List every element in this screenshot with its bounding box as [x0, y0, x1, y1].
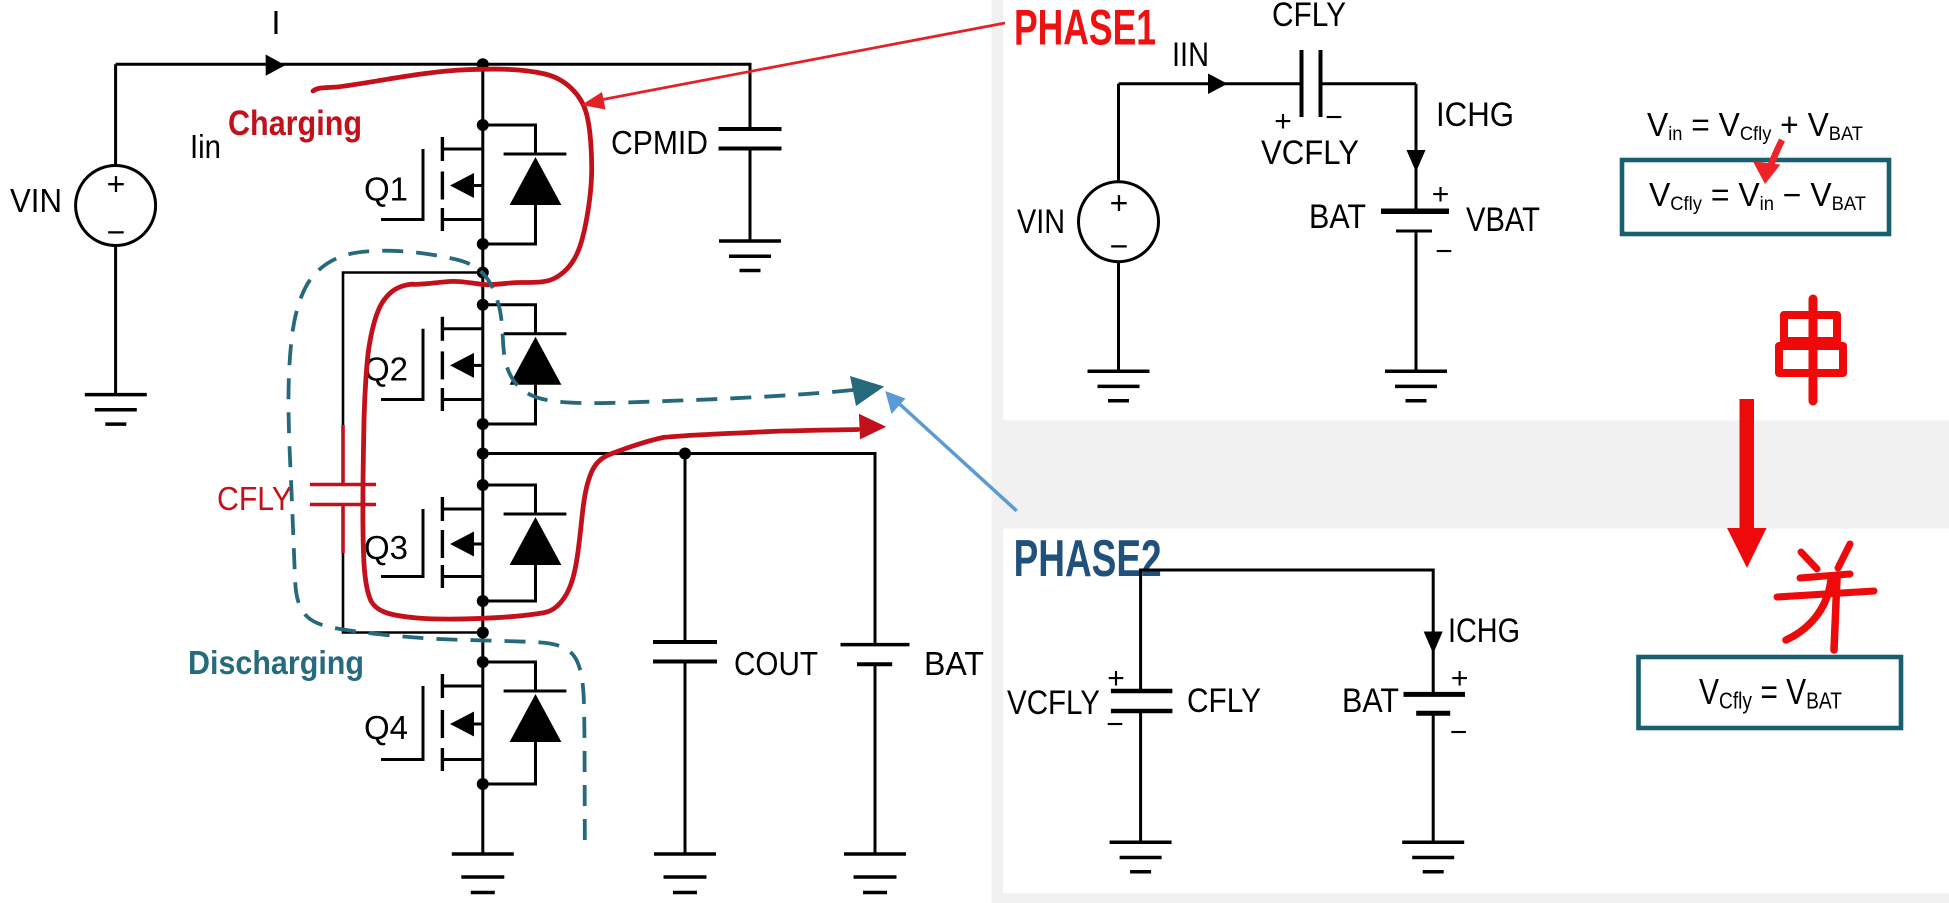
svg-text:Q4: Q4 [364, 709, 408, 746]
svg-text:Q2: Q2 [364, 350, 408, 387]
wire: top rail VIN to CPMID [116, 64, 750, 129]
wire: phase2 top [1141, 570, 1434, 694]
node: CFLY bottom branch [477, 627, 489, 639]
node: CFLY top branch [477, 267, 489, 279]
svg-text:VCFLY: VCFLY [1007, 684, 1100, 722]
svg-text:+: + [1110, 185, 1129, 221]
svg-text:Iin: Iin [190, 128, 221, 165]
wire: phase1 right with ICHG arrow [1415, 84, 1418, 209]
red charging arrowhead [859, 414, 886, 440]
wire: output branch to COUT and BAT [483, 454, 875, 645]
node: Q3 source [477, 595, 489, 607]
gray page background of right half [992, 0, 1949, 903]
node: Q2 source [477, 418, 489, 430]
svg-text:+: + [107, 166, 126, 202]
current arrow IIN [1208, 74, 1228, 95]
svg-text:−: − [1435, 235, 1453, 268]
teal discharging arrowhead [850, 376, 884, 406]
body diode of Q4 [483, 662, 567, 784]
ground under Q4 [452, 854, 514, 893]
svg-text:COUT: COUT [734, 645, 818, 682]
svg-text:−: − [1106, 708, 1124, 741]
capacitor CFLY (phase1) [1302, 50, 1321, 117]
svg-text:Q3: Q3 [364, 529, 408, 566]
body diode of Q2 [483, 305, 567, 424]
voltage source VIN (phase1) [1079, 84, 1159, 372]
red annotation arrow from PHASE1 [600, 23, 1005, 100]
current arrow I on top wire [266, 55, 286, 76]
big red arrow down [1740, 399, 1755, 529]
red charging path curve [313, 69, 858, 619]
node: Q4 source [477, 778, 489, 790]
ground under BAT [844, 854, 906, 893]
svg-text:−: − [1450, 716, 1468, 749]
transistor Q1 [381, 137, 483, 231]
white panel PHASE1 [1003, 0, 1949, 420]
node: Q1 drain [477, 119, 489, 131]
svg-text:PHASE1: PHASE1 [1014, 0, 1156, 56]
wire: main vertical rail [481, 64, 484, 854]
node: VOUT branch [477, 448, 489, 460]
ground under BAT (phase2) [1402, 842, 1464, 872]
svg-text:CFLY: CFLY [1272, 0, 1346, 34]
capacitor CFLY (phase2) [1111, 691, 1173, 711]
current arrow ICHG (phase2) [1424, 632, 1443, 654]
svg-text:CFLY: CFLY [1187, 682, 1261, 720]
wire: CFLY top branch [343, 273, 483, 426]
svg-text:−: − [107, 214, 126, 250]
svg-text:+: + [1432, 178, 1450, 211]
svg-text:VBAT: VBAT [1466, 201, 1540, 239]
ground under COUT [654, 854, 716, 893]
blue annotation arrow [893, 398, 1017, 511]
svg-text:−: − [1110, 228, 1129, 264]
wire: phase1 top [1119, 82, 1417, 85]
body diode of Q3 [483, 485, 567, 601]
battery BAT (phase2) [1404, 692, 1466, 697]
node: Q4 drain [477, 656, 489, 668]
node: Q1 source [477, 238, 489, 250]
node: Q3 drain [477, 479, 489, 491]
teal box phase2 [1639, 657, 1902, 728]
transistor Q4 [381, 674, 483, 771]
ground under VIN (phase1) [1088, 371, 1150, 401]
svg-text:−: − [1325, 101, 1343, 134]
node: Q2 drain [477, 299, 489, 311]
chinese character chuan (series) [1779, 299, 1843, 401]
voltage source VIN [76, 64, 156, 394]
svg-text:IIN: IIN [1172, 36, 1209, 74]
battery BAT (phase1) [1381, 209, 1449, 215]
wire: CFLY bottom branch [343, 553, 483, 633]
svg-text:VIN: VIN [10, 182, 62, 219]
svg-text:VIN: VIN [1017, 203, 1065, 241]
svg-text:BAT: BAT [1309, 198, 1366, 236]
svg-text:CFLY: CFLY [217, 480, 292, 517]
capacitor COUT [684, 454, 687, 643]
ground under VIN [85, 395, 147, 425]
svg-text:Discharging: Discharging [188, 644, 364, 681]
svg-text:BAT: BAT [924, 645, 984, 682]
ground under BAT (phase1) [1385, 371, 1447, 401]
svg-text:VCFLY: VCFLY [1261, 134, 1359, 172]
svg-text:CPMID: CPMID [611, 124, 708, 161]
svg-text:+: + [1451, 662, 1469, 695]
body diode of Q1 [483, 125, 567, 244]
small red arrow into box [1768, 140, 1782, 174]
teal box phase1 [1622, 160, 1889, 234]
svg-text:BAT: BAT [1342, 682, 1399, 720]
white panel PHASE2 [1003, 529, 1949, 894]
transistor Q3 [381, 497, 483, 588]
ground under CPMID [719, 241, 781, 271]
chinese character bing (parallel) [1777, 544, 1874, 650]
ground under CFLY (phase2) [1110, 842, 1172, 872]
capacitor CFLY (red) [310, 425, 376, 553]
svg-text:Q1: Q1 [364, 171, 408, 208]
svg-text:I: I [271, 4, 280, 41]
node: COUT tap [679, 448, 691, 460]
svg-text:+: + [1107, 662, 1125, 695]
svg-text:Charging: Charging [228, 104, 362, 143]
node: top junction [477, 58, 489, 70]
svg-text:ICHG: ICHG [1436, 96, 1514, 134]
capacitor CPMID [719, 129, 782, 149]
svg-text:ICHG: ICHG [1448, 612, 1520, 650]
transistor Q2 [381, 317, 483, 411]
battery BAT [841, 643, 910, 647]
teal discharging dashed path [288, 251, 853, 843]
